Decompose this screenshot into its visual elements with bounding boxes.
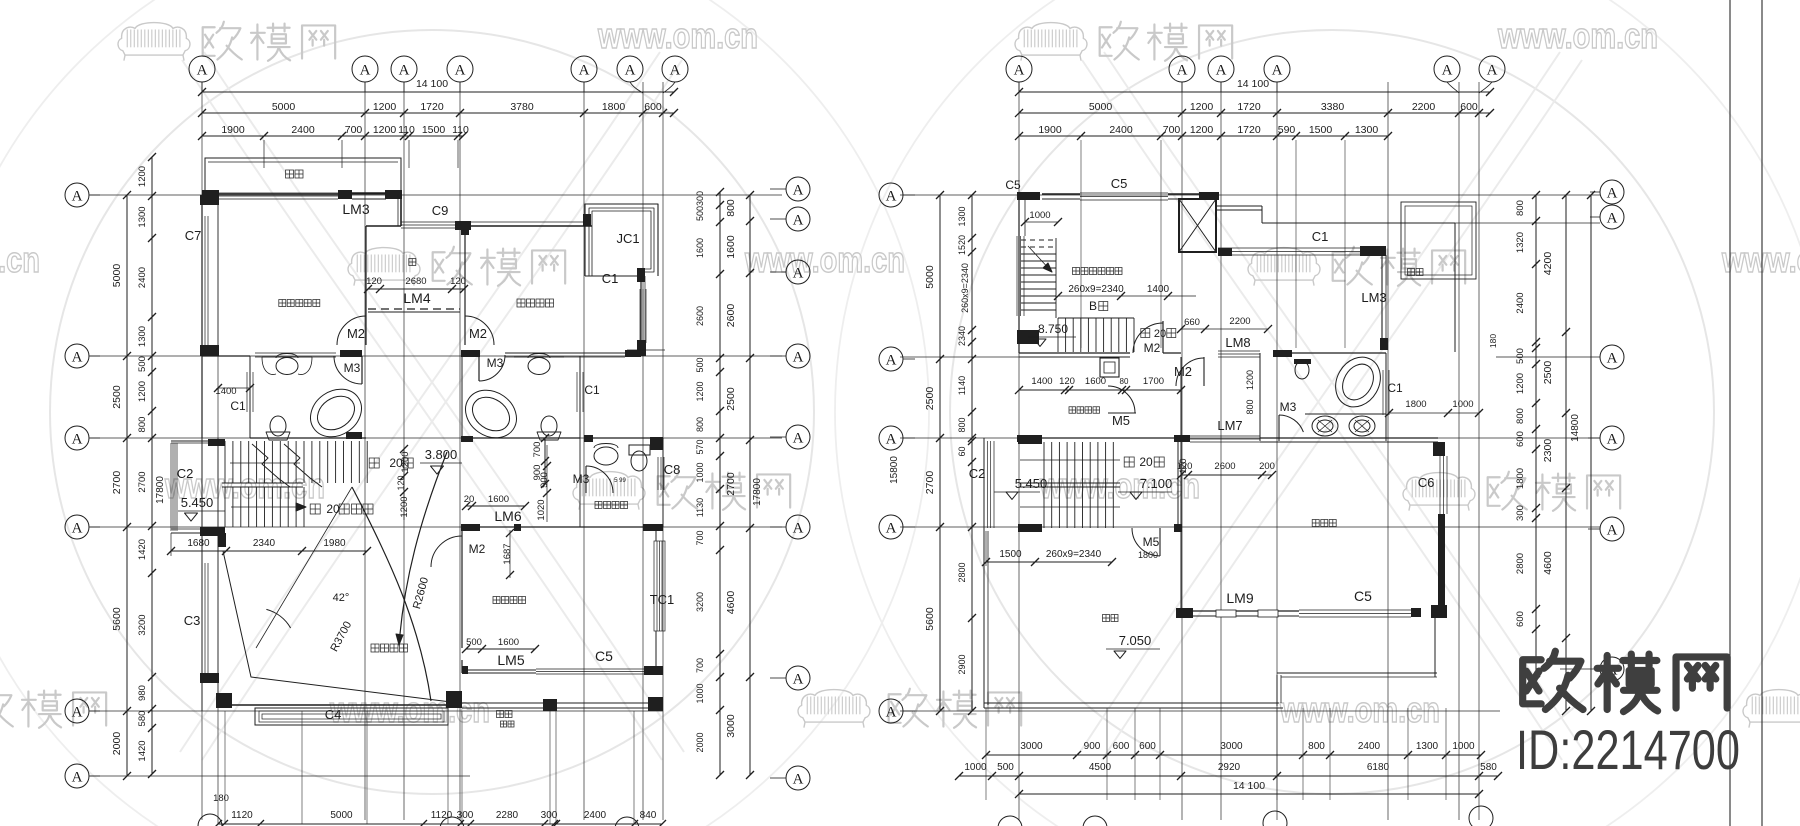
svg-text:1130: 1130 (695, 498, 705, 517)
svg-text:TC1: TC1 (650, 592, 675, 607)
svg-text:2340: 2340 (253, 538, 276, 549)
C9 window (455, 221, 466, 230)
door leaf M3 bath2 (478, 355, 480, 381)
svg-text:2000: 2000 (695, 732, 705, 752)
svg-text:1200: 1200 (1190, 124, 1214, 136)
top-right terrace of right plan (1216, 205, 1262, 207)
svg-text:120: 120 (366, 276, 382, 287)
svg-text:3000: 3000 (1020, 741, 1043, 752)
svg-text:1400: 1400 (1147, 284, 1170, 295)
svg-text:2600: 2600 (1214, 461, 1235, 472)
svg-text:A: A (793, 265, 804, 281)
svg-text:42°: 42° (333, 592, 350, 604)
stair arrows (230, 462, 300, 464)
svg-text:500: 500 (695, 206, 705, 221)
svg-text:800: 800 (1515, 408, 1526, 424)
svg-text:5600: 5600 (924, 607, 936, 631)
svg-text:1400: 1400 (1031, 376, 1052, 387)
C8 window on right wall (657, 457, 659, 490)
svg-text:5000: 5000 (111, 264, 123, 288)
svg-text:A: A (579, 62, 590, 78)
dims under stair right plan (986, 561, 1112, 563)
svg-text:14 100: 14 100 (1233, 780, 1265, 792)
big logo bottom right (1523, 651, 1583, 709)
svg-text:20: 20 (326, 502, 340, 516)
svg-text:5600: 5600 (111, 607, 123, 631)
wall step down to C9 (400, 194, 402, 226)
svg-text:www.om.cn: www.om.cn (744, 239, 905, 280)
stair break diagonals (252, 444, 290, 487)
stair B (1021, 239, 1056, 241)
svg-text:A: A (1607, 350, 1618, 366)
toilet bath2 (541, 416, 557, 436)
svg-text:5.450: 5.450 (1015, 476, 1048, 491)
C1 window band (1218, 247, 1365, 249)
svg-text:800: 800 (1515, 200, 1526, 216)
svg-text:3780: 3780 (510, 101, 534, 113)
svg-text:660: 660 (1184, 317, 1200, 328)
svg-text:A: A (670, 62, 681, 78)
svg-text:1800: 1800 (1515, 468, 1526, 489)
svg-text:260x9=2340: 260x9=2340 (1046, 549, 1102, 560)
curved stair edge R3700 (352, 487, 431, 701)
svg-text:20: 20 (1154, 328, 1166, 340)
svg-text:5 99: 5 99 (614, 478, 626, 484)
svg-text:110: 110 (452, 124, 469, 136)
svg-text:3000: 3000 (725, 714, 737, 738)
svg-text:A: A (1272, 62, 1283, 78)
svg-text:2340: 2340 (957, 326, 967, 346)
svg-text:A: A (625, 62, 636, 78)
svg-text:M3: M3 (573, 472, 590, 486)
stair annotations corridor2 (369, 458, 379, 468)
svg-text:A: A (72, 349, 83, 365)
bathtub bath3 (1327, 349, 1389, 415)
svg-text:www.om.cn: www.om.cn (1497, 15, 1658, 56)
svg-text:A: A (455, 62, 466, 78)
svg-text:1687: 1687 (502, 543, 513, 564)
svg-text:260x9=2340: 260x9=2340 (1068, 284, 1124, 295)
bottom dim rows left plan (224, 711, 226, 824)
watermark swoosh curves (182, 60, 662, 760)
svg-text:2200: 2200 (1229, 316, 1250, 327)
svg-text:5000: 5000 (1089, 101, 1113, 113)
room bottom-center walls (461, 524, 480, 531)
svg-text:www.om.cn: www.om.cn (0, 239, 40, 280)
wall down from C1 (1381, 255, 1383, 343)
svg-text:www.om.cn: www.om.cn (1721, 239, 1800, 280)
svg-text:A: A (793, 771, 804, 787)
svg-text:1720: 1720 (1237, 101, 1261, 113)
svg-text:5000: 5000 (330, 810, 353, 821)
bath1 left wall (249, 356, 251, 438)
svg-text:2500: 2500 (111, 385, 123, 409)
svg-text:C6: C6 (1418, 475, 1435, 490)
door M5 lower right plan (1159, 528, 1161, 556)
svg-text:M2: M2 (469, 542, 486, 556)
svg-text:840: 840 (640, 810, 657, 821)
svg-text:A: A (1014, 62, 1025, 78)
svg-text:20: 20 (1139, 455, 1153, 469)
balcony top (205, 158, 401, 194)
svg-text:1200: 1200 (373, 124, 397, 136)
svg-text:C1: C1 (230, 399, 246, 413)
svg-text:2400: 2400 (1515, 292, 1526, 313)
svg-text:1300: 1300 (957, 206, 967, 226)
svg-text:M2: M2 (1144, 341, 1161, 355)
svg-text:600: 600 (644, 101, 662, 113)
svg-text:C8: C8 (664, 462, 681, 477)
svg-text:580: 580 (1480, 762, 1497, 773)
svg-text:A: A (886, 188, 897, 204)
svg-text:M5: M5 (1143, 535, 1160, 549)
svg-text:JC1: JC1 (616, 231, 639, 246)
svg-text:6180: 6180 (1367, 762, 1390, 773)
wall room2 bottom (505, 352, 625, 354)
svg-text:A: A (360, 62, 371, 78)
svg-text:14800: 14800 (1570, 414, 1581, 442)
svg-text:1720: 1720 (1237, 124, 1261, 136)
svg-text:LM5: LM5 (497, 652, 524, 668)
sheet border lines right (1729, 0, 1731, 826)
svg-text:A: A (72, 188, 83, 204)
svg-text:1200: 1200 (400, 451, 411, 472)
svg-text:1420: 1420 (137, 740, 148, 761)
svg-text:1200: 1200 (1190, 101, 1214, 113)
svg-text:3000: 3000 (1220, 741, 1243, 752)
svg-text:C5: C5 (1111, 176, 1128, 191)
svg-text:600: 600 (1515, 431, 1526, 447)
svg-text:200: 200 (1259, 461, 1275, 472)
svg-text:1000: 1000 (964, 762, 987, 773)
svg-text:LM3: LM3 (1361, 290, 1386, 305)
svg-text:1200: 1200 (137, 166, 148, 187)
svg-text:2700: 2700 (725, 472, 737, 496)
bottom wall windows LM5 C5 (462, 669, 536, 671)
svg-text:1000: 1000 (695, 462, 705, 482)
svg-text:800: 800 (137, 417, 148, 433)
svg-text:2900: 2900 (957, 654, 967, 674)
svg-text:1680: 1680 (187, 538, 210, 549)
svg-text:1600: 1600 (488, 494, 509, 505)
grid horizontals left plan (90, 194, 782, 196)
LM7 wall row (1017, 435, 1042, 442)
corridor walls x366/x465 (365, 226, 367, 316)
svg-text:1600: 1600 (498, 637, 519, 648)
svg-text:180: 180 (1488, 334, 1498, 348)
svg-text:2600: 2600 (695, 306, 705, 326)
svg-text:A: A (793, 430, 804, 446)
svg-text:A: A (1442, 62, 1453, 78)
svg-text:A: A (793, 671, 804, 687)
dim row under stairB room (1019, 389, 1181, 391)
svg-text:600: 600 (1515, 611, 1526, 627)
svg-text:A: A (72, 769, 83, 785)
JC1 bay window (585, 204, 658, 276)
terrace right plan (983, 531, 985, 708)
axis circles right column of left plan (786, 177, 810, 201)
svg-text:1300: 1300 (137, 206, 148, 227)
svg-text:1200: 1200 (373, 101, 397, 113)
svg-text:www.om.cn: www.om.cn (597, 15, 758, 56)
svg-text:4600: 4600 (1542, 551, 1554, 575)
svg-text:C1: C1 (584, 383, 600, 397)
svg-text:700: 700 (345, 124, 363, 136)
svg-text:1800: 1800 (1138, 550, 1158, 560)
svg-text:800: 800 (695, 417, 705, 432)
bottom partial axis circles (198, 814, 222, 826)
right wall C6 window (1433, 442, 1445, 456)
svg-text:1120: 1120 (431, 810, 453, 821)
svg-text:1000: 1000 (695, 683, 705, 703)
svg-text:1500: 1500 (1309, 124, 1333, 136)
svg-text:C5: C5 (1354, 588, 1372, 604)
svg-text:1120: 1120 (231, 810, 253, 821)
grid horizontals right plan (900, 194, 1600, 196)
door M2 into room bottom-center (461, 535, 463, 567)
grid verticals left plan (201, 82, 203, 820)
svg-text:8.750: 8.750 (1038, 322, 1068, 336)
svg-text:800: 800 (1245, 399, 1255, 414)
svg-text:2400: 2400 (584, 810, 607, 821)
svg-text:www.om.cn: www.om.cn (1279, 689, 1440, 730)
svg-text:3380: 3380 (1321, 101, 1345, 113)
LM4 dims and sliding door (368, 288, 464, 290)
svg-text:A: A (72, 431, 83, 447)
svg-text:A: A (793, 212, 804, 228)
toilet tank C8 (629, 445, 650, 455)
svg-text:2300: 2300 (1542, 439, 1554, 463)
svg-text:500: 500 (997, 762, 1014, 773)
svg-text:A: A (197, 62, 208, 78)
svg-text:M2: M2 (347, 326, 365, 341)
stair tread (224, 441, 226, 483)
svg-text:120: 120 (396, 475, 406, 490)
door M3 bath3 (1279, 415, 1303, 432)
top dimension rows right plan (1019, 91, 1490, 93)
svg-text:2500: 2500 (1542, 361, 1554, 385)
svg-text:M3: M3 (344, 361, 361, 375)
svg-text:A: A (1607, 522, 1618, 538)
curved edge R2600 (399, 452, 447, 645)
bathtub bath2 (456, 380, 525, 447)
svg-text:C2: C2 (177, 466, 194, 481)
watermark big circles (50, 30, 814, 794)
svg-text:2680: 2680 (405, 276, 426, 287)
svg-text:A: A (886, 520, 897, 536)
label room1 (493, 597, 526, 604)
svg-text:A: A (72, 704, 83, 720)
svg-text:700: 700 (695, 658, 705, 673)
wall inner line extension (217, 195, 219, 824)
svg-text:M2: M2 (1174, 364, 1192, 379)
left wall with C5 window (1018, 200, 1020, 353)
svg-text:1320: 1320 (1515, 232, 1526, 253)
room2 top wall (466, 225, 592, 227)
toilet bath3 (1294, 359, 1311, 364)
svg-text:1000: 1000 (1029, 210, 1050, 221)
svg-text:2000: 2000 (111, 732, 123, 756)
svg-text:2920: 2920 (1218, 762, 1241, 773)
svg-text:1200: 1200 (695, 381, 705, 401)
svg-text:A: A (886, 431, 897, 447)
bath2 (461, 356, 463, 441)
svg-text:15800: 15800 (889, 456, 900, 484)
svg-text:17800: 17800 (155, 476, 166, 504)
svg-text:C7: C7 (185, 228, 202, 243)
svg-text:500: 500 (1515, 348, 1526, 364)
left dim columns right plan (939, 195, 941, 711)
svg-text:300: 300 (695, 191, 705, 206)
svg-text:LM8: LM8 (1225, 335, 1250, 350)
top dimension rows left plan (202, 91, 674, 93)
svg-text:1600: 1600 (1085, 376, 1106, 387)
svg-text:5.450: 5.450 (181, 495, 214, 510)
svg-text:1000: 1000 (1452, 399, 1473, 410)
svg-text:A: A (886, 704, 897, 720)
svg-text:A: A (1607, 210, 1618, 226)
svg-text:M2: M2 (469, 326, 487, 341)
svg-text:M5: M5 (1112, 413, 1130, 428)
svg-text:C5: C5 (1005, 178, 1021, 192)
svg-text:2500: 2500 (924, 387, 936, 411)
svg-text:M3: M3 (1280, 400, 1297, 414)
stair block C2 right plan (983, 441, 985, 528)
svg-text:1600: 1600 (725, 235, 737, 259)
svg-text:1420: 1420 (137, 539, 148, 560)
svg-text:A: A (1607, 185, 1618, 201)
top wall with window LM3 (202, 190, 219, 199)
svg-text:4600: 4600 (725, 591, 737, 615)
bath1 bottom wall (250, 437, 366, 439)
right dim columns right plan (1535, 195, 1537, 680)
bottom-center room walls (461, 527, 463, 535)
svg-text:C9: C9 (432, 203, 449, 218)
svg-text:A: A (793, 520, 804, 536)
label master bedroom (279, 300, 320, 307)
svg-text:1980: 1980 (323, 538, 346, 549)
svg-text:LM4: LM4 (403, 290, 430, 306)
svg-text:1900: 1900 (1038, 124, 1062, 136)
svg-text:900: 900 (1084, 741, 1101, 752)
svg-text:1020: 1020 (536, 499, 547, 520)
svg-text:60: 60 (957, 446, 967, 456)
svg-text:C2: C2 (969, 466, 986, 481)
svg-text:900: 900 (539, 472, 550, 488)
svg-text:1500: 1500 (999, 549, 1022, 560)
svg-text:2500: 2500 (725, 387, 737, 411)
svg-text:600: 600 (1460, 101, 1478, 113)
door M3 C8 room (586, 466, 613, 493)
svg-text:5000: 5000 (272, 101, 296, 113)
sink bath1 (276, 358, 298, 375)
svg-text:17800: 17800 (752, 478, 763, 506)
svg-text:1800: 1800 (1405, 399, 1426, 410)
svg-text:3200: 3200 (137, 614, 148, 635)
axis circles top row left plan (189, 56, 215, 82)
svg-text:800: 800 (957, 417, 967, 432)
sink bath2 (528, 358, 550, 375)
svg-text:7.050: 7.050 (1119, 633, 1152, 648)
door leaf M2 left (365, 316, 367, 345)
svg-text:2600: 2600 (725, 304, 737, 328)
svg-text:B: B (1089, 299, 1097, 313)
elevator shaft (1179, 199, 1216, 252)
svg-text:3200: 3200 (695, 592, 705, 612)
svg-text:80: 80 (1120, 377, 1129, 386)
svg-text:A: A (886, 352, 897, 368)
svg-text:2700: 2700 (924, 471, 936, 495)
label room2 (517, 299, 554, 307)
svg-text:500: 500 (695, 357, 705, 372)
svg-text:800: 800 (1308, 741, 1325, 752)
svg-text:2800: 2800 (957, 562, 967, 582)
svg-text:4200: 4200 (1542, 252, 1554, 276)
door M2 stairB room (1162, 321, 1164, 353)
svg-text:C4: C4 (325, 707, 342, 722)
svg-text:1000: 1000 (1452, 741, 1475, 752)
axis circles right column right plan (1600, 180, 1624, 204)
svg-text:600: 600 (1113, 741, 1130, 752)
svg-text:20: 20 (464, 494, 475, 505)
svg-text:LM3: LM3 (342, 201, 369, 217)
door leaf M2 right (464, 316, 466, 345)
svg-text:2700: 2700 (111, 471, 123, 495)
door M5 upper (1108, 412, 1136, 414)
svg-text:2280: 2280 (496, 810, 519, 821)
svg-text:2700: 2700 (137, 471, 148, 492)
svg-text:LM6: LM6 (494, 508, 521, 524)
right dim columns of left plan (749, 195, 751, 775)
washer (1100, 358, 1119, 377)
bottom wall LM9 C5 (1176, 608, 1193, 618)
svg-text:700: 700 (532, 442, 543, 458)
svg-text:www.om.cn: www.om.cn (329, 689, 490, 730)
void diagonal edge (223, 551, 459, 703)
watermark text tiles (118, 23, 190, 61)
sink C8 room (594, 447, 618, 465)
svg-text:1300: 1300 (1355, 124, 1379, 136)
svg-text:1800: 1800 (602, 101, 626, 113)
svg-text:700: 700 (1163, 124, 1181, 136)
master bedroom right plan (1180, 442, 1182, 610)
svg-text:LM9: LM9 (1226, 590, 1253, 606)
door M2 corridor right plan (1203, 357, 1205, 386)
axis circles top row right plan (1006, 56, 1032, 82)
svg-text:1600: 1600 (695, 238, 705, 258)
svg-text:120: 120 (450, 276, 466, 287)
svg-text:2400: 2400 (1109, 124, 1133, 136)
bottom wall and C4 window (218, 704, 460, 706)
svg-text:C3: C3 (184, 613, 201, 628)
lower terrace (446, 691, 462, 708)
svg-text:C5: C5 (595, 648, 613, 664)
roof box top-right (1401, 202, 1476, 279)
svg-text:A: A (1177, 62, 1188, 78)
svg-text:590: 590 (1278, 124, 1296, 136)
svg-text:1300: 1300 (137, 326, 148, 347)
svg-text:LM7: LM7 (1217, 418, 1242, 433)
axis circles left column right plan (879, 183, 903, 207)
svg-text:1900: 1900 (221, 124, 245, 136)
svg-text:2400: 2400 (1358, 741, 1381, 752)
svg-text:1700: 1700 (1143, 376, 1164, 387)
stairs A left plan (170, 443, 172, 531)
svg-text:M3: M3 (487, 356, 504, 370)
svg-text:1300: 1300 (1416, 741, 1439, 752)
svg-text:A: A (1487, 62, 1498, 78)
wall y356 segments (202, 355, 250, 357)
